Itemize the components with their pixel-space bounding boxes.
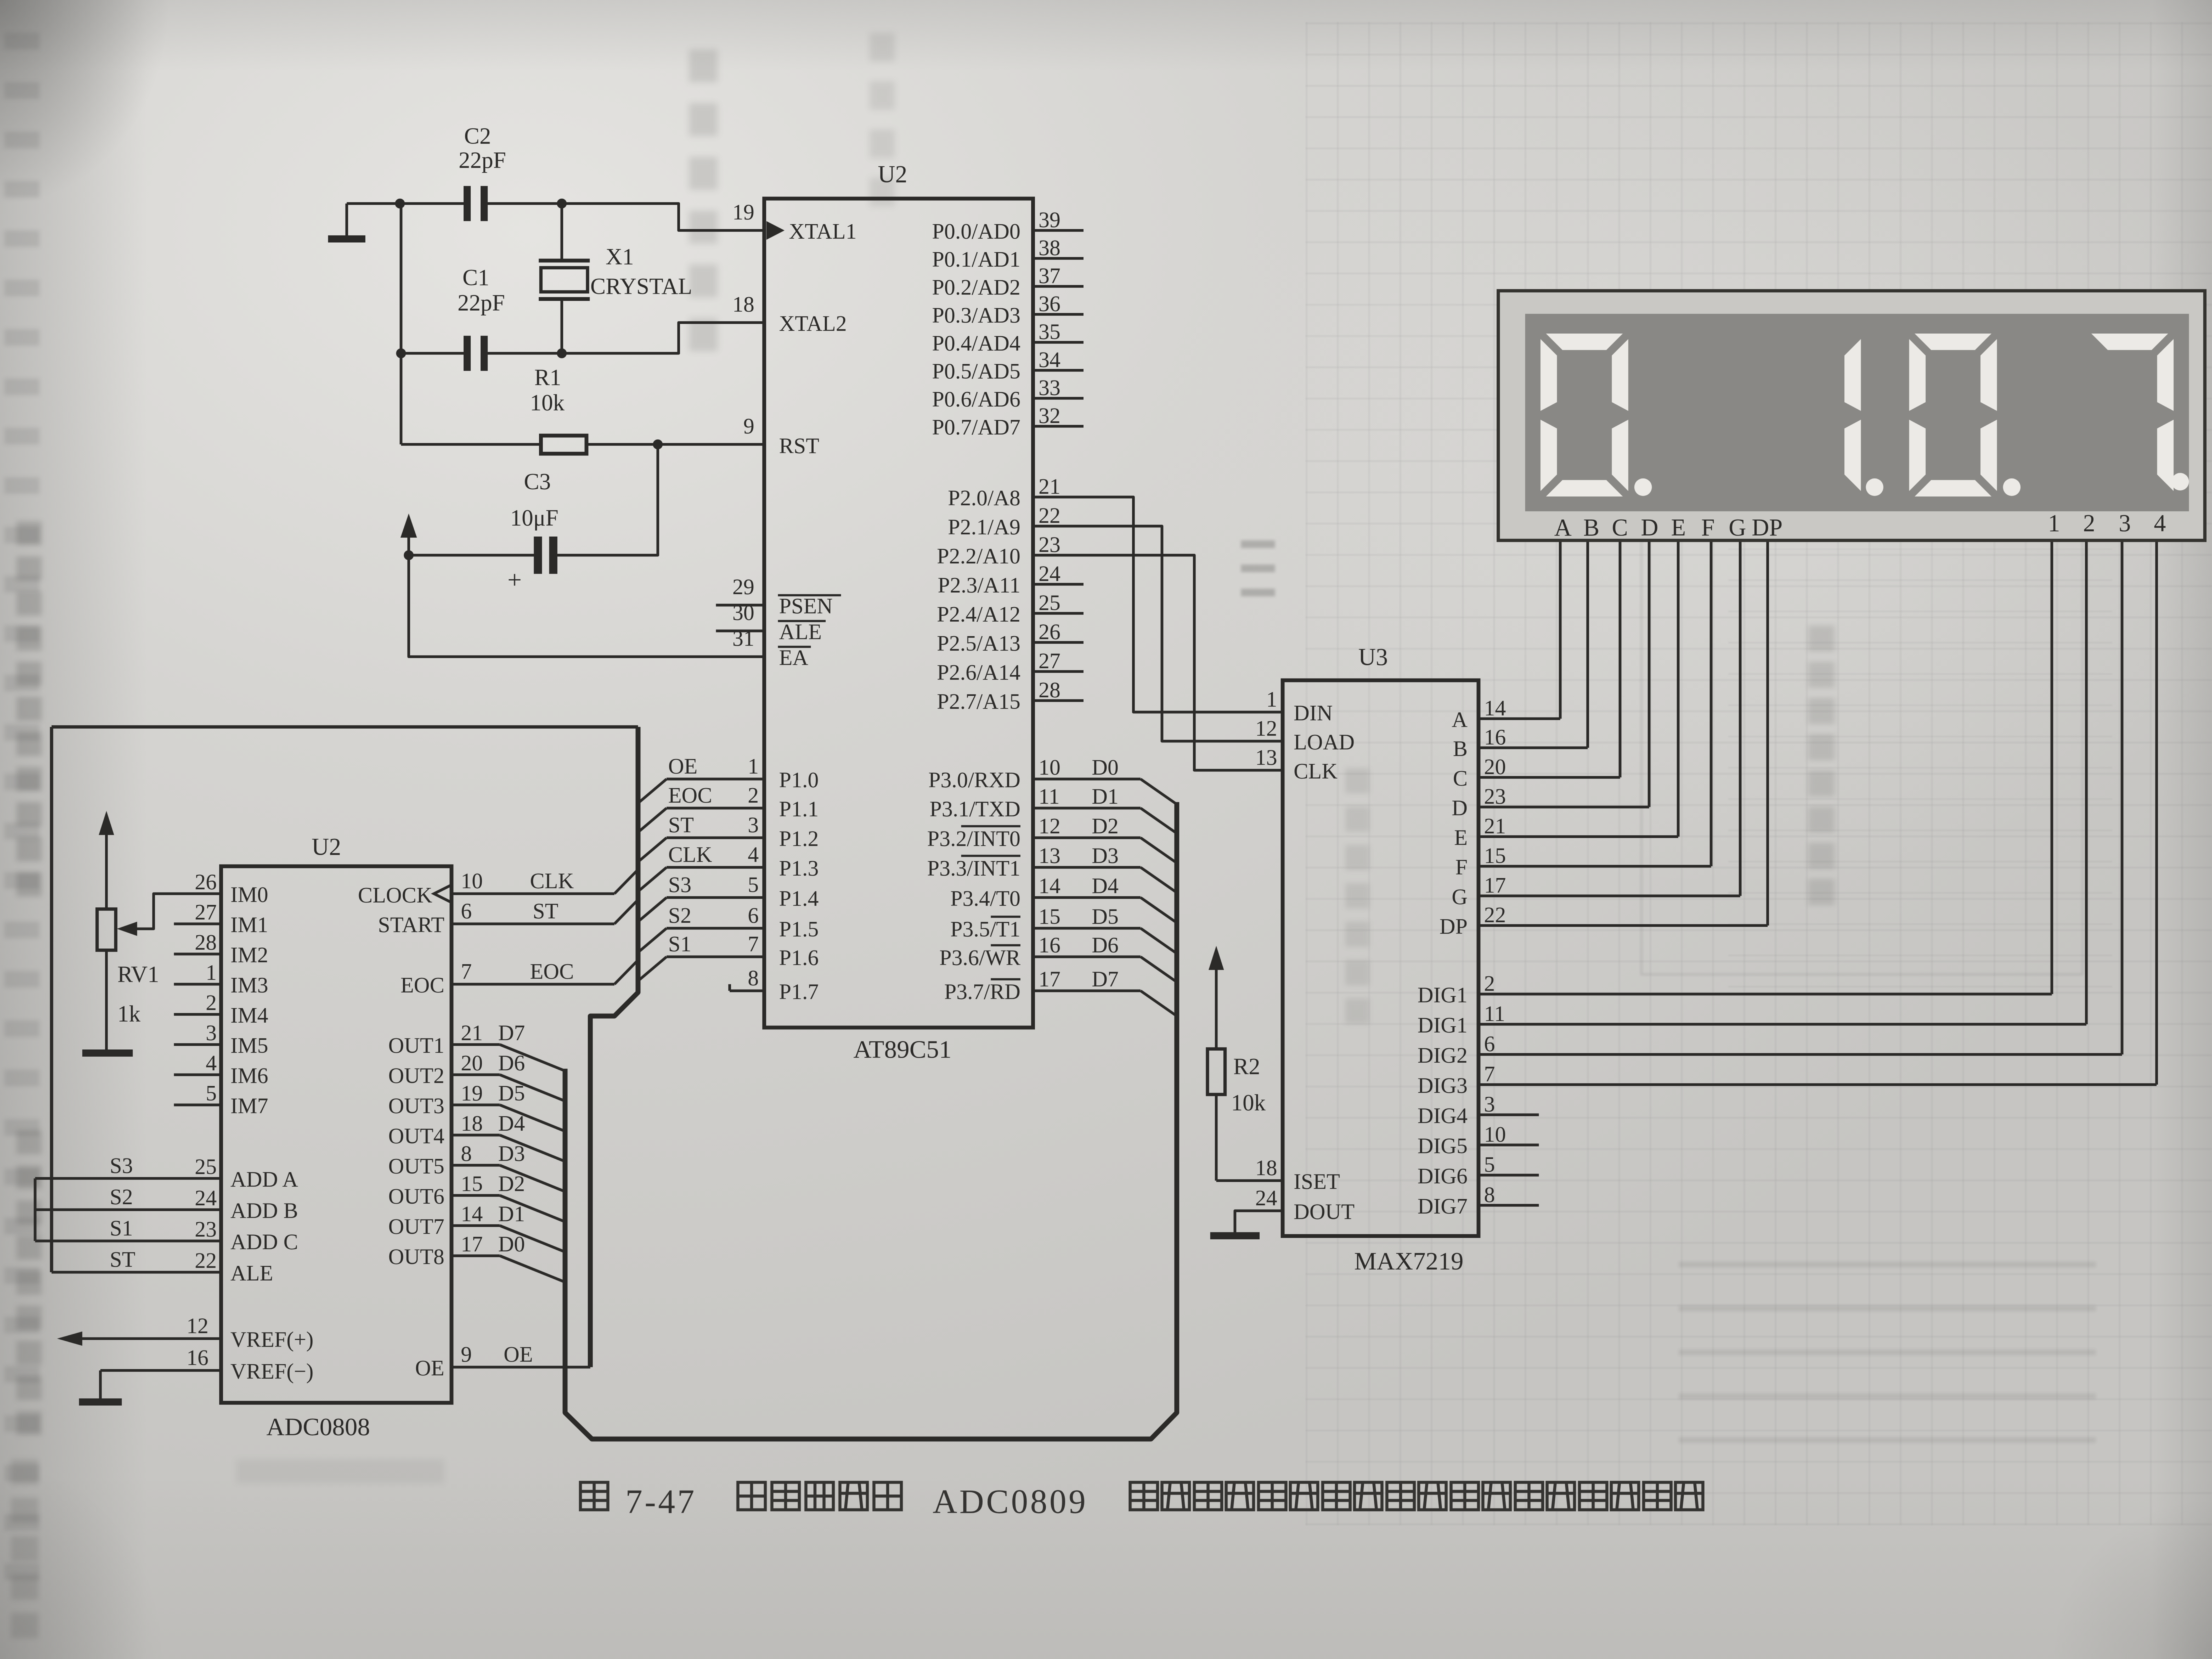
U3 pin 20 segment C wire to display xyxy=(1479,776,1620,779)
ADC pin 5 IM7 xyxy=(174,1104,221,1107)
svg-text:F: F xyxy=(1701,514,1714,541)
svg-text:DIG6: DIG6 xyxy=(1418,1164,1468,1188)
U2 pin 27 P2.6/A14 xyxy=(1033,670,1084,673)
svg-text:P3.5/T1: P3.5/T1 xyxy=(950,917,1020,941)
svg-text:P2.1/A9: P2.1/A9 xyxy=(948,515,1020,539)
svg-text:25: 25 xyxy=(195,1154,217,1179)
svg-text:D3: D3 xyxy=(1092,843,1119,868)
U3 pin 21 segment E wire to display xyxy=(1479,836,1678,838)
svg-text:25: 25 xyxy=(1039,590,1060,615)
svg-text:P1.5: P1.5 xyxy=(779,917,819,941)
U2 pin 4 P1.3 / net CLK xyxy=(667,866,764,869)
svg-text:A: A xyxy=(1452,707,1468,732)
svg-text:P1.6: P1.6 xyxy=(779,945,819,970)
svg-text:31: 31 xyxy=(732,626,754,651)
wire P2.2 (23) to U3 CLK xyxy=(1033,555,1283,770)
svg-text:23: 23 xyxy=(1484,784,1506,809)
svg-text:D4: D4 xyxy=(1092,873,1119,898)
svg-text:26: 26 xyxy=(1039,619,1060,644)
svg-text:ST: ST xyxy=(668,812,694,837)
svg-text:ADC0808: ADC0808 xyxy=(266,1413,370,1441)
svg-text:1: 1 xyxy=(1266,687,1277,712)
wire RST node to C3 xyxy=(557,444,658,555)
U3 pin 8 DIG7 xyxy=(1479,1204,1539,1207)
svg-text:14: 14 xyxy=(461,1201,483,1226)
U2 pin 13 P3.3/INT1 / net D3 xyxy=(1033,866,1141,869)
svg-text:P0.3/AD3: P0.3/AD3 xyxy=(932,303,1020,328)
svg-text:DIG2: DIG2 xyxy=(1418,1043,1468,1068)
svg-text:IM4: IM4 xyxy=(230,1003,268,1028)
svg-text:18: 18 xyxy=(1255,1155,1277,1180)
svg-text:DIG1: DIG1 xyxy=(1418,983,1468,1007)
svg-text:2: 2 xyxy=(206,990,217,1015)
svg-text:DP: DP xyxy=(1440,914,1468,939)
svg-text:OUT8: OUT8 xyxy=(388,1244,444,1269)
U2 pin 11 P3.1/TXD / net D1 xyxy=(1033,807,1141,810)
svg-text:S1: S1 xyxy=(668,932,691,956)
svg-text:CRYSTAL: CRYSTAL xyxy=(590,274,692,300)
svg-text:20: 20 xyxy=(1484,754,1506,779)
U2 pin 25 P2.4/A12 xyxy=(1033,612,1084,615)
svg-text:20: 20 xyxy=(461,1051,483,1075)
svg-text:4: 4 xyxy=(2154,510,2166,537)
svg-text:2: 2 xyxy=(748,783,759,808)
svg-text:12: 12 xyxy=(1255,716,1277,741)
svg-text:F: F xyxy=(1455,855,1468,879)
ADC pin 2 IM4 xyxy=(174,1013,221,1016)
svg-text:12: 12 xyxy=(187,1313,208,1338)
ADC pin 19 OUT3 / net D5 xyxy=(452,1104,500,1107)
svg-text:21: 21 xyxy=(1484,814,1506,838)
U2 pin 30 ALE xyxy=(716,630,764,633)
svg-text:D6: D6 xyxy=(498,1051,525,1075)
svg-text:D1: D1 xyxy=(498,1201,525,1226)
svg-text:7: 7 xyxy=(748,932,759,956)
svg-text:P3.7/RD: P3.7/RD xyxy=(944,979,1020,1004)
svg-text:D: D xyxy=(1641,514,1658,541)
svg-text:OUT5: OUT5 xyxy=(388,1154,444,1178)
svg-text:21: 21 xyxy=(1039,474,1060,499)
display digit segments digit3 shows 0 xyxy=(1915,334,1991,350)
svg-text:OE: OE xyxy=(415,1356,444,1380)
svg-text:U2: U2 xyxy=(878,161,907,188)
ADC pin 22 ALE / net ST xyxy=(52,1271,221,1274)
wire bundle vertical (OE/EOC/ST/CLK/S3/S2/S1) xyxy=(590,727,638,1367)
svg-text:D: D xyxy=(1452,795,1468,820)
svg-text:5: 5 xyxy=(206,1081,217,1105)
ADC pin 4 IM6 xyxy=(174,1074,221,1076)
svg-text:10: 10 xyxy=(461,868,483,893)
svg-text:P0.2/AD2: P0.2/AD2 xyxy=(932,275,1020,300)
svg-text:D4: D4 xyxy=(498,1111,525,1136)
display digit segments digit2 shows 1 xyxy=(1844,339,1861,411)
svg-text:IM2: IM2 xyxy=(230,943,268,967)
svg-text:39: 39 xyxy=(1039,207,1060,232)
svg-text:6: 6 xyxy=(461,899,472,923)
svg-text:15: 15 xyxy=(1484,843,1506,868)
ADC pin 25 ADD A / net S3 xyxy=(35,1177,221,1180)
RV1 wiper arrow xyxy=(117,922,137,936)
svg-text:OUT7: OUT7 xyxy=(388,1214,444,1239)
svg-text:P3.0/RXD: P3.0/RXD xyxy=(928,768,1020,792)
svg-text:P0.7/AD7: P0.7/AD7 xyxy=(932,415,1020,439)
capacitor C2 22pF xyxy=(464,186,471,221)
svg-text:1: 1 xyxy=(2048,510,2060,537)
ADC pin 9 OE xyxy=(452,1366,590,1369)
svg-text:D3: D3 xyxy=(498,1141,525,1166)
U3 pin 6 DIG2 xyxy=(1479,1053,2122,1056)
U2 pin 35 P0.4/AD4 xyxy=(1033,341,1084,344)
wire C1 left to bus xyxy=(401,352,465,355)
svg-text:D7: D7 xyxy=(498,1020,525,1045)
svg-text:P2.4/A12: P2.4/A12 xyxy=(937,602,1020,627)
U3 pin 2 DIG1 xyxy=(1479,993,2052,996)
U3 pin 22 segment DP wire to display xyxy=(1479,924,1768,927)
svg-text:OUT3: OUT3 xyxy=(388,1093,444,1118)
resistor R2 10k xyxy=(1215,968,1218,1049)
ADC pin 24 ADD B / net S2 xyxy=(35,1209,221,1211)
svg-text:DIG3: DIG3 xyxy=(1418,1073,1468,1098)
svg-text:37: 37 xyxy=(1039,263,1060,288)
svg-text:12: 12 xyxy=(1039,814,1060,838)
wire C2 to XTAL1 pin 19 xyxy=(488,204,764,230)
resistor R1 10k xyxy=(401,443,541,446)
svg-text:X1: X1 xyxy=(606,245,634,270)
edge shadows xyxy=(0,0,148,1659)
svg-text:DIG1: DIG1 xyxy=(1418,1013,1468,1037)
svg-text:G: G xyxy=(1452,884,1468,909)
node RST junction xyxy=(653,439,663,449)
svg-text:U2: U2 xyxy=(312,833,341,860)
svg-text:P3.3/INT1: P3.3/INT1 xyxy=(927,856,1020,881)
U2 pin 37 P0.2/AD2 xyxy=(1033,285,1084,288)
svg-text:P2.7/A15: P2.7/A15 xyxy=(937,689,1020,714)
svg-text:P3.1/TXD: P3.1/TXD xyxy=(929,797,1020,821)
svg-text:27: 27 xyxy=(1039,648,1060,673)
svg-text:ISET: ISET xyxy=(1294,1169,1340,1194)
wire C1 to XTAL2 pin 18 xyxy=(488,323,764,353)
U3 pin 7 DIG3 xyxy=(1479,1084,2157,1086)
svg-text:10: 10 xyxy=(1484,1122,1506,1147)
U2 pin 7 P1.6 / net S1 xyxy=(667,956,764,958)
svg-text:D0: D0 xyxy=(498,1232,525,1256)
U2 pin 6 P1.5 / net S2 xyxy=(667,927,764,930)
svg-text:8: 8 xyxy=(748,966,759,990)
U3 pin 11 DIG1 xyxy=(1479,1023,2086,1026)
svg-text:DIG5: DIG5 xyxy=(1418,1133,1468,1158)
svg-text:P2.6/A14: P2.6/A14 xyxy=(937,660,1020,685)
svg-text:22pF: 22pF xyxy=(458,291,505,316)
svg-text:LOAD: LOAD xyxy=(1294,730,1355,754)
svg-text:IM6: IM6 xyxy=(230,1063,268,1088)
U3 MAX7219 box xyxy=(1283,680,1479,1236)
U3 pin 5 DIG6 xyxy=(1479,1174,1539,1177)
svg-text:8: 8 xyxy=(1484,1182,1495,1207)
svg-text:P1.0: P1.0 xyxy=(779,768,819,792)
U3 pin 3 DIG4 xyxy=(1479,1114,1539,1116)
svg-text:P1.3: P1.3 xyxy=(779,856,819,881)
svg-text:D5: D5 xyxy=(1092,904,1119,929)
svg-text:S3: S3 xyxy=(668,872,691,897)
U2 pin 33 P0.6/AD6 xyxy=(1033,397,1084,400)
svg-text:EOC: EOC xyxy=(530,959,574,984)
U2 pin 2 P1.1 / net EOC xyxy=(667,807,764,810)
svg-text:34: 34 xyxy=(1039,347,1060,372)
display dark panel xyxy=(1525,314,2189,511)
svg-text:OE: OE xyxy=(504,1342,533,1367)
ADC pin 23 ADD C / net S1 xyxy=(35,1240,221,1243)
display digit3 decimal point xyxy=(2003,478,2021,496)
svg-text:3: 3 xyxy=(1484,1092,1495,1116)
U3 pin 23 segment D wire to display xyxy=(1479,806,1649,809)
ADC U2 ADC0808 box xyxy=(221,866,452,1403)
svg-text:23: 23 xyxy=(1039,532,1060,557)
svg-text:21: 21 xyxy=(461,1020,483,1045)
svg-text:XTAL2: XTAL2 xyxy=(779,311,847,336)
svg-text:32: 32 xyxy=(1039,403,1060,428)
svg-text:16: 16 xyxy=(187,1345,208,1370)
svg-text:S3: S3 xyxy=(110,1153,133,1178)
ADC pin 28 IM2 xyxy=(174,953,221,956)
svg-text:OUT6: OUT6 xyxy=(388,1184,444,1209)
svg-text:E: E xyxy=(1671,514,1686,541)
display digit1 decimal point xyxy=(1634,478,1652,496)
svg-text:9: 9 xyxy=(461,1342,472,1367)
svg-text:D6: D6 xyxy=(1092,933,1119,957)
svg-text:17: 17 xyxy=(1039,967,1060,991)
svg-text:IM5: IM5 xyxy=(230,1033,268,1058)
U2 pin 26 P2.5/A13 xyxy=(1033,641,1084,644)
left rail vertical xyxy=(50,727,53,1272)
svg-text:29: 29 xyxy=(732,574,754,599)
svg-text:B: B xyxy=(1583,514,1599,541)
svg-text:36: 36 xyxy=(1039,291,1060,316)
ADC pin 27 IM1 xyxy=(174,923,221,926)
U2 pin 5 P1.4 / net S3 xyxy=(667,896,764,899)
svg-text:VREF(+): VREF(+) xyxy=(230,1327,313,1352)
svg-text:RST: RST xyxy=(779,433,819,458)
svg-text:1k: 1k xyxy=(117,1002,140,1027)
left ground bus vertical xyxy=(400,204,403,444)
svg-text:CLK: CLK xyxy=(668,842,712,867)
svg-text:ADC0809: ADC0809 xyxy=(933,1483,1088,1521)
svg-text:7-47: 7-47 xyxy=(625,1483,697,1521)
svg-text:CLK: CLK xyxy=(1294,759,1338,783)
node VCC junction xyxy=(404,550,414,560)
svg-text:R1: R1 xyxy=(534,365,561,391)
ADC pin 17 OUT8 / net D0 xyxy=(452,1255,500,1257)
svg-text:EA: EA xyxy=(779,645,808,670)
svg-text:ALE: ALE xyxy=(779,619,822,644)
U3 pin 24 DOUT xyxy=(1235,1211,1283,1232)
VCC power arrow xyxy=(408,535,410,555)
svg-text:IM0: IM0 xyxy=(230,882,268,907)
svg-text:P3.2/INT0: P3.2/INT0 xyxy=(927,826,1020,851)
U2 pin 32 P0.7/AD7 xyxy=(1033,425,1084,428)
svg-text:XTAL1: XTAL1 xyxy=(789,219,856,244)
capacitor C1 22pF xyxy=(464,336,471,371)
svg-text:16: 16 xyxy=(1039,933,1060,957)
U2 pin 8 P1.7 xyxy=(730,990,764,992)
bleed-through grid xyxy=(1306,22,2212,1525)
ground (crystal caps) xyxy=(346,204,348,238)
U3 pin 17 segment G wire to display xyxy=(1479,895,1740,898)
svg-text:2: 2 xyxy=(2083,510,2095,537)
svg-text:OUT2: OUT2 xyxy=(388,1063,444,1088)
display digit4 decimal point xyxy=(2171,473,2189,490)
svg-text:30: 30 xyxy=(732,600,754,625)
svg-text:EOC: EOC xyxy=(668,783,712,808)
svg-text:DIG4: DIG4 xyxy=(1418,1103,1468,1128)
svg-text:P1.2: P1.2 xyxy=(779,826,819,851)
svg-text:P2.5/A13: P2.5/A13 xyxy=(937,631,1020,656)
svg-text:IM3: IM3 xyxy=(230,973,268,997)
7-segment display module frame xyxy=(1498,291,2205,540)
svg-text:19: 19 xyxy=(732,200,754,224)
svg-text:22pF: 22pF xyxy=(459,148,506,173)
svg-text:26: 26 xyxy=(195,870,217,894)
svg-text:EOC: EOC xyxy=(400,973,444,997)
svg-text:CLOCK: CLOCK xyxy=(358,883,432,907)
svg-text:9: 9 xyxy=(743,414,754,438)
U3 pin 15 segment F wire to display xyxy=(1479,865,1711,868)
display digit segments digit4 shows 7 xyxy=(2091,334,2168,350)
svg-text:IM1: IM1 xyxy=(230,912,268,937)
ADC pin 18 OUT4 / net D4 xyxy=(452,1134,500,1137)
svg-text:18: 18 xyxy=(461,1111,483,1136)
node crystal bottom tap xyxy=(557,348,567,358)
U3 pin 14 segment A wire to display xyxy=(1479,718,1560,720)
svg-text:DOUT: DOUT xyxy=(1294,1199,1355,1224)
left rail lower vertical xyxy=(34,1178,37,1241)
ADC pin 7 EOC xyxy=(452,983,614,986)
wire P2.0 (21) to U3 DIN xyxy=(1033,497,1283,712)
svg-text:C: C xyxy=(1612,514,1628,541)
svg-text:P3.4/T0: P3.4/T0 xyxy=(950,886,1020,911)
ADC pin 6 START / net ST xyxy=(452,923,614,926)
ADC pin 16 VREF(-) xyxy=(100,1369,221,1372)
svg-text:DIG7: DIG7 xyxy=(1418,1194,1468,1218)
svg-text:38: 38 xyxy=(1039,235,1060,260)
svg-text:23: 23 xyxy=(195,1217,217,1242)
svg-text:3: 3 xyxy=(206,1020,217,1045)
potentiometer RV1 1k xyxy=(105,828,108,909)
U2 pin 29 PSEN xyxy=(716,604,764,607)
ADC pin 21 OUT1 / net D7 xyxy=(452,1043,500,1046)
svg-text:S2: S2 xyxy=(110,1184,133,1209)
svg-text:PSEN: PSEN xyxy=(779,594,833,618)
svg-text:START: START xyxy=(378,912,444,937)
U3 pin 10 DIG5 xyxy=(1479,1144,1539,1147)
svg-text:B: B xyxy=(1453,736,1468,761)
svg-text:D2: D2 xyxy=(1092,814,1119,838)
svg-text:4: 4 xyxy=(206,1051,217,1075)
wire VCC node to EA pin 31 xyxy=(409,555,764,657)
U2 pin 19 XTAL1 xyxy=(716,229,764,232)
svg-text:2: 2 xyxy=(1484,971,1495,996)
svg-text:10k: 10k xyxy=(1231,1091,1266,1116)
ADC pin 1 IM3 xyxy=(174,983,221,986)
svg-text:+: + xyxy=(507,566,522,594)
svg-text:13: 13 xyxy=(1039,843,1060,868)
U2 pin 38 P0.1/AD1 xyxy=(1033,257,1084,260)
node crystal top tap xyxy=(557,199,567,208)
ADC pin 20 OUT2 / net D6 xyxy=(452,1074,500,1076)
svg-text:11: 11 xyxy=(1484,1001,1505,1026)
U2 pin 16 P3.6/WR / net D6 xyxy=(1033,956,1141,958)
svg-text:AT89C51: AT89C51 xyxy=(854,1035,952,1063)
svg-text:24: 24 xyxy=(1255,1186,1277,1210)
svg-text:24: 24 xyxy=(1039,561,1060,586)
svg-text:C1: C1 xyxy=(462,266,489,291)
U2 pin 34 P0.5/AD5 xyxy=(1033,369,1084,372)
display digit2 decimal point xyxy=(1866,478,1883,496)
svg-text:14: 14 xyxy=(1484,696,1506,720)
svg-text:VREF(−): VREF(−) xyxy=(230,1359,313,1384)
svg-text:IM7: IM7 xyxy=(230,1093,268,1118)
ADC pin 10 CLOCK / net CLK xyxy=(452,893,614,895)
svg-text:C: C xyxy=(1453,766,1468,791)
wire ground to C2 xyxy=(347,202,465,205)
svg-text:16: 16 xyxy=(1484,725,1506,749)
U2 pin 39 P0.0/AD0 xyxy=(1033,229,1084,232)
svg-text:G: G xyxy=(1729,514,1746,541)
U2 pin 10 P3.0/RXD / net D0 xyxy=(1033,778,1141,781)
U2 pin 17 P3.7/RD / net D7 xyxy=(1033,990,1141,992)
svg-text:22: 22 xyxy=(1039,503,1060,528)
svg-text:11: 11 xyxy=(1039,784,1060,809)
svg-text:8: 8 xyxy=(461,1141,472,1166)
svg-text:22: 22 xyxy=(1484,902,1506,927)
svg-text:22: 22 xyxy=(195,1248,217,1273)
svg-text:18: 18 xyxy=(732,292,754,317)
svg-text:28: 28 xyxy=(1039,678,1060,702)
svg-text:19: 19 xyxy=(461,1081,483,1105)
ground (DOUT) xyxy=(1210,1232,1260,1239)
bleed-through text (reverse page) xyxy=(4,32,5,33)
U3 pin 16 segment B wire to display xyxy=(1479,747,1588,749)
U2 pin 14 P3.4/T0 / net D4 xyxy=(1033,896,1141,899)
svg-text:DP: DP xyxy=(1752,514,1782,541)
svg-text:P2.3/A11: P2.3/A11 xyxy=(938,573,1020,597)
ADC pin 12 VREF(+) xyxy=(80,1338,221,1340)
svg-text:ADD A: ADD A xyxy=(230,1167,298,1192)
svg-text:RV1: RV1 xyxy=(117,962,159,988)
svg-text:CLK: CLK xyxy=(530,868,574,893)
svg-text:28: 28 xyxy=(195,930,217,955)
svg-text:7: 7 xyxy=(1484,1062,1495,1086)
svg-text:10: 10 xyxy=(1039,755,1060,780)
MCU U2 AT89C51 box xyxy=(764,199,1033,1028)
svg-text:D1: D1 xyxy=(1092,784,1119,809)
svg-text:7: 7 xyxy=(461,959,472,984)
svg-text:D7: D7 xyxy=(1092,967,1119,991)
U2 pin 12 P3.2/INT0 / net D2 xyxy=(1033,837,1141,839)
U2 pin 28 P2.7/A15 xyxy=(1033,699,1084,702)
svg-text:R2: R2 xyxy=(1233,1054,1260,1080)
svg-text:C3: C3 xyxy=(524,470,551,495)
svg-text:P1.7: P1.7 xyxy=(779,979,819,1004)
svg-text:D0: D0 xyxy=(1092,755,1119,780)
svg-text:ALE: ALE xyxy=(230,1261,273,1285)
svg-text:P1.1: P1.1 xyxy=(779,797,819,821)
svg-text:D5: D5 xyxy=(498,1081,525,1105)
svg-text:4: 4 xyxy=(748,842,759,867)
svg-text:ADD C: ADD C xyxy=(230,1229,298,1254)
svg-text:DIN: DIN xyxy=(1294,701,1333,725)
svg-text:ST: ST xyxy=(533,899,558,923)
svg-text:OUT1: OUT1 xyxy=(388,1033,444,1058)
